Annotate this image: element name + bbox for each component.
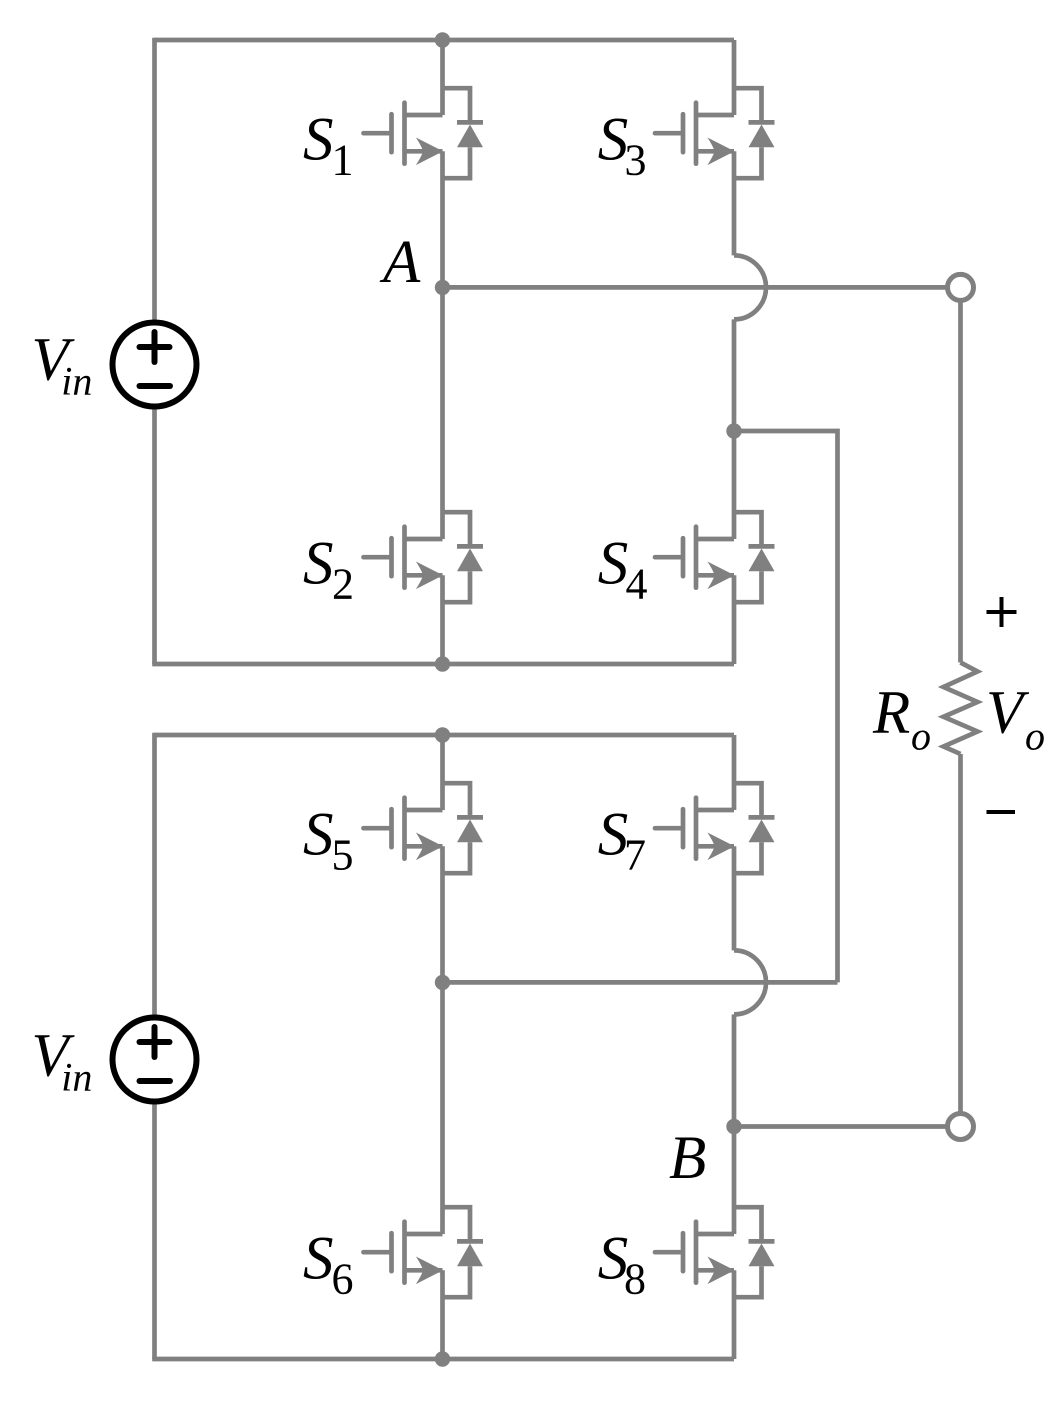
transistor S1 [364, 88, 484, 178]
svg-text:in: in [61, 359, 92, 404]
svg-text:o: o [911, 714, 931, 759]
svg-text:3: 3 [625, 136, 647, 185]
transistor S4 [655, 512, 775, 602]
svg-text:6: 6 [332, 1255, 354, 1304]
node B junction [726, 1119, 741, 1134]
svg-text:A: A [379, 229, 421, 296]
transistor S7 [655, 783, 775, 873]
svg-text:4: 4 [626, 560, 648, 609]
wire mid node bridge 2 to series link [443, 980, 838, 985]
wire right leg S7 source to hop 2 [732, 846, 737, 950]
wire right leg hop to S4 drain through junction [732, 319, 737, 539]
transistor S6 [364, 1207, 484, 1297]
wire right leg drain S3 [732, 40, 737, 115]
transistor S5 [364, 783, 484, 873]
svg-text:S: S [598, 531, 629, 598]
svg-text:R: R [872, 679, 910, 746]
wire top rail bridge 1 [155, 38, 735, 43]
svg-text:S: S [303, 531, 334, 598]
wire left leg drain S1 [440, 40, 445, 115]
wire left leg S5 source to S6 drain through mid node [440, 846, 445, 1234]
wire left side bridge 1 [152, 38, 157, 664]
svg-text:in: in [61, 1055, 92, 1100]
label S5 [303, 802, 354, 880]
wire node B to minus terminal and up to resistor [734, 754, 961, 1127]
wire right leg S4 source to bottom rail [732, 575, 737, 664]
voltage source Vin1 [113, 323, 197, 407]
svg-text:S: S [303, 802, 334, 869]
resistor Ro [944, 663, 978, 755]
wire left side bridge 2 [152, 733, 157, 1359]
label Ro [872, 679, 931, 758]
svg-text:8: 8 [624, 1255, 646, 1304]
svg-text:5: 5 [332, 831, 354, 880]
node top rail junction bridge 1 [435, 32, 450, 47]
wire bottom rail bridge 1 [152, 662, 734, 667]
wire right leg S8 source to bottom rail [732, 1270, 737, 1359]
svg-text:S: S [303, 1226, 334, 1293]
wire hop over mid node wire [734, 950, 766, 1014]
svg-text:o: o [1025, 714, 1045, 759]
transistor S2 [364, 512, 484, 602]
wire node A to plus terminal and down to resistor [443, 287, 961, 662]
label Vo [986, 679, 1045, 758]
node bottom rail junction bridge 2 [435, 1351, 450, 1366]
svg-text:V: V [986, 679, 1030, 746]
wire right leg drain S7 [732, 735, 737, 810]
node right leg junction to series link [726, 423, 741, 438]
wire bottom rail bridge 2 [152, 1357, 734, 1362]
label S8 [598, 1226, 646, 1304]
wire left leg S1 source to S2 drain through node A [440, 151, 445, 539]
label Vin2 [32, 1023, 93, 1100]
svg-text:7: 7 [624, 831, 646, 880]
label S1 [303, 107, 354, 185]
node A junction [435, 280, 450, 295]
voltage source Vin2 [113, 1018, 197, 1102]
node top rail junction bridge 2 [435, 727, 450, 742]
svg-text:2: 2 [332, 560, 354, 609]
svg-text:B: B [669, 1125, 706, 1192]
node bottom rail junction bridge 1 [435, 656, 450, 671]
transistor S8 [655, 1207, 775, 1297]
wire right leg S3 source to hop [732, 151, 737, 255]
wire hop over node A wire [734, 255, 766, 319]
label minus polarity output [987, 810, 1016, 814]
wire top rail bridge 2 [155, 733, 735, 738]
wire right leg hop 2 to S8 drain through node B [732, 1014, 737, 1234]
wire left leg S6 source to bottom rail [440, 1270, 445, 1359]
terminal plus output [948, 274, 974, 300]
label Vin1 [32, 326, 93, 403]
label S3 [598, 107, 647, 185]
label S7 [598, 802, 646, 880]
wire left leg S2 source to bottom rail [440, 575, 445, 664]
wire left leg drain S5 [440, 735, 445, 810]
wire series link bridge1 to bridge2 [734, 431, 838, 982]
svg-text:S: S [303, 107, 334, 174]
label S4 [598, 531, 648, 609]
node mid junction bridge 2 [435, 975, 450, 990]
transistor S3 [655, 88, 775, 178]
label plus polarity output [987, 597, 1017, 627]
terminal minus output [948, 1114, 974, 1140]
svg-text:1: 1 [332, 136, 354, 185]
label S2 [303, 531, 354, 609]
label S6 [303, 1226, 354, 1304]
